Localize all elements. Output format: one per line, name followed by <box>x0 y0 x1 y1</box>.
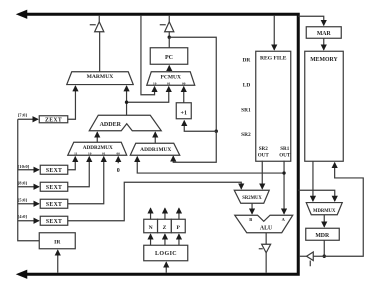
mux SR2MUX <box>234 190 269 203</box>
incrementer +1 <box>176 103 191 119</box>
svg-text:MDRMUX: MDRMUX <box>313 209 336 214</box>
svg-text:SEXT: SEXT <box>46 168 62 174</box>
wire SR2 OUT to SR2MUX <box>261 161 263 189</box>
node right junction <box>215 130 218 133</box>
svg-text:[7:0]: [7:0] <box>18 112 28 117</box>
svg-text:P: P <box>177 225 181 231</box>
wire MDRMUX to MDR <box>323 215 325 227</box>
mux PCMUX <box>147 72 195 86</box>
tri-state gate GatePC <box>160 16 174 38</box>
wire LOGIC to Z <box>164 234 166 245</box>
svg-text:00: 00 <box>182 81 186 85</box>
svg-text:Z: Z <box>163 225 167 231</box>
condition code register P <box>171 219 185 233</box>
node adder output junction <box>125 101 128 104</box>
wire IR trunk <box>18 119 40 241</box>
wire PC-out to right column <box>169 37 216 131</box>
svg-text:ADDR1MUX: ADDR1MUX <box>140 147 171 153</box>
svg-text:SEXT: SEXT <box>46 219 62 225</box>
wire junction to ADDR1MUX right input <box>173 131 216 162</box>
svg-text:B: B <box>249 217 252 222</box>
mux ADDR1MUX <box>130 143 180 155</box>
wire adder output to MARMUX right input <box>126 86 128 115</box>
svg-text:01: 01 <box>167 81 171 85</box>
wire bus to IR <box>57 250 59 273</box>
wire P output <box>178 208 180 219</box>
svg-text:+1: +1 <box>181 110 187 116</box>
mux ADDR2MUX <box>68 142 127 155</box>
condition code register N <box>144 219 158 233</box>
wire trunk to SEXT [10:0] <box>18 169 39 171</box>
wire ADDR1MUX output to ADDER <box>154 132 156 143</box>
register file REG FILE <box>256 51 291 161</box>
bus (system bus, thick) <box>21 14 298 274</box>
block LOGIC <box>144 245 188 261</box>
wire MEMORY output to MDRMUX <box>312 161 314 201</box>
wire trunk to SEXT [4:0] <box>18 220 39 222</box>
svg-text:01: 01 <box>102 151 106 155</box>
register IR <box>39 233 75 249</box>
svg-text:ADDER: ADDER <box>100 122 122 128</box>
wire LOGIC to N <box>150 234 152 245</box>
register PC <box>150 48 188 65</box>
svg-text:SEXT: SEXT <box>46 185 62 191</box>
svg-text:OUT: OUT <box>258 152 270 158</box>
wire ADDR2MUX output to ADDER <box>96 132 98 142</box>
mux MARMUX <box>67 72 134 85</box>
svg-text:[4:0]: [4:0] <box>18 214 28 219</box>
svg-text:ALU: ALU <box>260 225 273 231</box>
wire bus to LOGIC <box>165 262 167 273</box>
wire SR1 OUT to ALU input A <box>283 161 285 214</box>
wire GateMDR to bus <box>300 255 307 257</box>
bus top-left arrowhead <box>16 10 28 19</box>
node MDR output junction <box>323 255 326 258</box>
wire bus to REG FILE <box>273 16 275 50</box>
wire LOGIC to P <box>178 234 180 245</box>
svg-text:SR1: SR1 <box>241 107 251 113</box>
wire adder node to PCMUX input 01 <box>127 87 169 103</box>
node SR1 junction <box>282 171 285 174</box>
condition code register Z <box>158 219 172 233</box>
wire SEXT[5:0] to ADDR2MUX <box>68 157 104 204</box>
svg-text:MDR: MDR <box>315 233 330 239</box>
svg-text:SR1: SR1 <box>280 146 290 152</box>
wire trunk to SEXT [5:0] <box>18 203 39 205</box>
mux MDRMUX <box>306 203 342 215</box>
block ZEXT <box>39 116 68 124</box>
svg-text:PCMUX: PCMUX <box>161 74 181 80</box>
block SEXT [4:0] <box>40 216 68 225</box>
wire SEXT[10:0] to ADDR2MUX <box>68 157 76 170</box>
svg-text:LOGIC: LOGIC <box>155 251 177 257</box>
tri-state gate GateMDR <box>307 252 314 266</box>
svg-text:00: 00 <box>117 151 121 155</box>
svg-text:ADDR2MUX: ADDR2MUX <box>83 145 113 151</box>
wire SEXT[4:0] to SR2MUX <box>68 182 242 221</box>
bus bottom-left arrowhead <box>16 270 28 279</box>
node PC-out junction <box>168 36 171 39</box>
wire N output <box>150 208 152 219</box>
svg-text:0: 0 <box>117 168 120 174</box>
wire MAR to MEMORY <box>323 38 325 50</box>
wire ZEXT to MARMUX left input <box>68 86 76 119</box>
wire MDR junction to GateMDR <box>313 255 324 257</box>
svg-text:[8:0]: [8:0] <box>18 180 28 185</box>
block SEXT [10:0] <box>40 165 68 174</box>
svg-text:MARMUX: MARMUX <box>87 74 114 80</box>
block SEXT [8:0] <box>40 182 68 191</box>
svg-text:IR: IR <box>54 239 61 245</box>
constant 0 input of ADDR2MUX <box>117 157 120 174</box>
svg-text:DR: DR <box>242 57 250 63</box>
tri-state gate GateMARMUX <box>90 16 104 72</box>
wire +1 to PCMUX input 00 <box>183 87 185 103</box>
svg-text:11: 11 <box>74 151 78 155</box>
svg-text:[5:0]: [5:0] <box>18 197 28 202</box>
svg-text:OUT: OUT <box>279 152 291 158</box>
svg-text:PC: PC <box>165 55 173 61</box>
wire ALU output to gate <box>265 233 267 245</box>
svg-text:[10:0]: [10:0] <box>18 164 30 169</box>
tri-state gate GateALU <box>259 244 271 253</box>
wire trunk to ZEXT <box>18 118 38 120</box>
register MDR <box>306 228 340 240</box>
svg-text:SR2MUX: SR2MUX <box>242 196 262 201</box>
adder ADDER <box>89 115 161 131</box>
wire SR2MUX output to ALU input B <box>251 203 253 214</box>
alu ALU <box>235 215 293 233</box>
wire PCMUX output to PC <box>168 66 170 72</box>
svg-text:SR2: SR2 <box>259 146 269 152</box>
wire GateALU to bus <box>265 253 267 273</box>
svg-text:10: 10 <box>153 81 157 85</box>
wire trunk to SEXT [8:0] <box>18 186 39 188</box>
wire bus to MDRMUX <box>298 190 335 201</box>
svg-text:SR2: SR2 <box>241 132 251 138</box>
wire MDR to MEMORY write loop <box>324 163 363 257</box>
svg-text:ZEXT: ZEXT <box>45 117 62 123</box>
block SEXT [5:0] <box>40 199 68 208</box>
block MEMORY <box>305 51 344 161</box>
wire MDR output <box>323 240 325 256</box>
register MAR <box>306 27 341 39</box>
wire junction to +1 input <box>184 121 216 132</box>
svg-text:MAR: MAR <box>317 31 332 37</box>
svg-text:N: N <box>149 225 153 231</box>
wire Z output <box>164 208 166 219</box>
wire SEXT[8:0] to ADDR2MUX <box>68 157 90 187</box>
wire bus to MAR <box>298 16 324 25</box>
svg-text:MEMORY: MEMORY <box>310 57 338 63</box>
svg-text:LD: LD <box>243 82 251 88</box>
svg-text:REG FILE: REG FILE <box>260 55 287 61</box>
wire bus to PCMUX input 10 <box>141 16 155 95</box>
wire SR1 to ADDR1MUX left input <box>137 157 284 173</box>
svg-text:10: 10 <box>88 151 92 155</box>
wire PC-out junction to PC top <box>168 37 170 48</box>
svg-text:SEXT: SEXT <box>46 202 62 208</box>
